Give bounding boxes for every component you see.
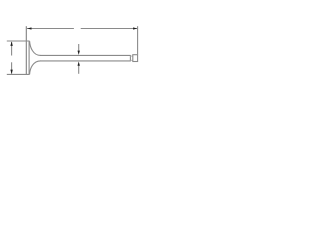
valve tip block: [133, 55, 138, 62]
keeper groove bottom edge: [130, 59, 132, 61]
keeper groove left wall: [129, 55, 131, 61]
arrowhead up of head diameter dimension: [10, 41, 12, 46]
valve head margin line (vertical): [28, 41, 30, 74]
overall length dimension line (top), left segment: [27, 28, 74, 30]
head diameter bottom extension line + head bottom edge: [7, 73, 30, 75]
head diameter dimension line, lower segment: [11, 62, 13, 73]
arrowhead down of head diameter dimension: [10, 70, 12, 75]
arrowhead down of stem diameter dimension: [78, 51, 80, 55]
right extension line (vertical, to valve tip): [137, 26, 139, 54]
arrowhead up of stem diameter dimension: [78, 62, 80, 66]
keeper groove top edge: [130, 55, 132, 57]
head diameter dimension line, upper segment: [11, 42, 13, 56]
head diameter top extension line + head top edge: [7, 40, 30, 42]
arrowhead right of overall length dimension: [133, 27, 137, 29]
bottom fillet curve from head to stem: [30, 61, 41, 74]
stem diameter dimension line, upper segment: [78, 44, 80, 51]
stem bottom line: [40, 60, 130, 62]
top fillet curve from head to stem: [30, 41, 41, 55]
stem diameter dimension line, lower segment: [78, 65, 80, 74]
overall length dimension line (top), right segment: [81, 28, 138, 30]
left extension line + valve head face (vertical): [25, 26, 27, 75]
background: [0, 0, 143, 96]
stem top line: [40, 54, 130, 56]
arrowhead left of overall length dimension: [27, 27, 31, 29]
